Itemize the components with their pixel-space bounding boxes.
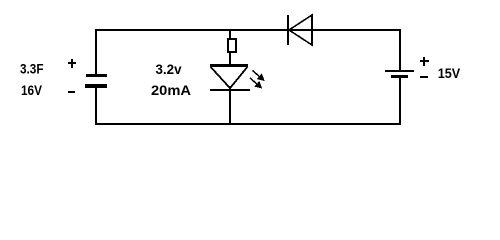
- svg-text:15V: 15V: [438, 65, 461, 81]
- wire right lower segment: [399, 78, 401, 125]
- svg-text:16V: 16V: [21, 82, 43, 98]
- capacitor C1 bottom plate: [85, 84, 107, 88]
- LED D1 triangle right side: [230, 67, 247, 88]
- battery B1 negative plate: [391, 75, 408, 78]
- diode D2 cathode bar: [287, 15, 289, 45]
- capacitor plus sign: [68, 62, 76, 64]
- wire left upper segment: [95, 29, 97, 74]
- capacitor C1 top plate: [86, 74, 107, 77]
- LED D1 anode bar: [210, 64, 248, 67]
- LED arrow 2: [250, 78, 261, 88]
- svg-text:20mA: 20mA: [151, 82, 191, 98]
- wire LED branch upper: [229, 29, 231, 39]
- LED arrow 1: [253, 71, 264, 81]
- LED D1 cathode bar: [210, 89, 250, 91]
- svg-text:3.2v: 3.2v: [156, 61, 182, 77]
- wire bottom rail: [95, 123, 401, 125]
- battery minus sign: [420, 76, 428, 78]
- wire LED apex to cathode bar: [229, 86, 231, 89]
- battery B1 positive plate: [385, 70, 414, 72]
- wire right upper segment: [399, 29, 401, 70]
- wire top rail: [95, 29, 401, 31]
- wire resistor to LED: [229, 53, 231, 65]
- capacitor minus sign: [68, 91, 75, 93]
- battery plus sign: [420, 60, 429, 62]
- resistor R1: [228, 39, 236, 52]
- wire left lower segment: [95, 88, 97, 125]
- diode D2 triangle: [289, 15, 312, 45]
- LED D1 triangle left side: [211, 67, 230, 88]
- wire LED branch lower: [229, 91, 231, 125]
- svg-text:3.3F: 3.3F: [20, 61, 44, 77]
